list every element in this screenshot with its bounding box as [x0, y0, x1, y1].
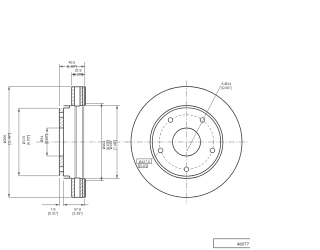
rotated diameter dimension labels [3, 133, 117, 150]
svg-text:[7.48"]: [7.48"] [113, 140, 117, 150]
dimension: overall width [58, 64, 60, 106]
dimension: friction surface inner diameter [116, 105, 118, 178]
bolt circle diameter boxed label with leader [137, 153, 159, 168]
svg-text:[0.55"]: [0.55"] [222, 86, 232, 90]
svg-text:48077: 48077 [237, 242, 250, 247]
centerlines [186, 81, 188, 204]
5 lug bolt holes [158, 118, 214, 172]
dimensions: flange thickness and hat depth [58, 178, 60, 206]
hat web bottom step [64, 177, 72, 179]
svg-text:[11.42"]: [11.42"] [7, 133, 11, 145]
vent channel inner edges (center band) [74, 106, 76, 178]
dimension: vent inner diameter [101, 103, 103, 180]
dimension arrowheads [8, 66, 118, 206]
dimension: rotor outer diameter [8, 86, 10, 197]
svg-text:[5.0"]: [5.0"] [139, 164, 147, 168]
bolt hole callout 5-O14 with leader [187, 86, 221, 151]
svg-text:[1.29"]: [1.29"] [73, 72, 83, 76]
section axis centerline [36, 141, 128, 143]
hat web top step [64, 105, 72, 107]
hat mounting flange (hatched bar with stud-hole and bore gaps) [59, 108, 63, 113]
friction ring top run (vented plates, section hatch) [72, 87, 75, 106]
dimension: hat flange diameter [18, 108, 20, 176]
svg-text:[2.28"]: [2.28"] [73, 211, 83, 215]
dimension: center bore diameter [46, 128, 48, 156]
svg-text:[2.52"]: [2.52"] [44, 134, 48, 144]
friction ring bottom run (vented plates, section hatch) [72, 179, 75, 198]
dimension: friction ring width [71, 73, 73, 86]
svg-text:[6.93"]: [6.93"] [26, 135, 30, 145]
svg-text:[0.31"]: [0.31"] [48, 211, 58, 215]
